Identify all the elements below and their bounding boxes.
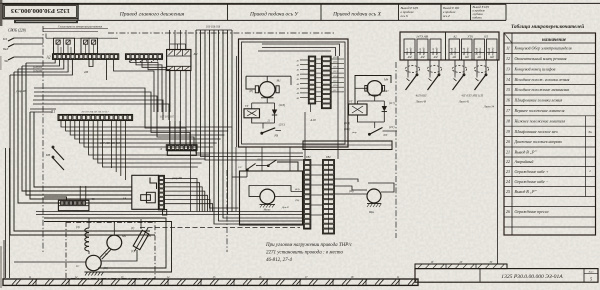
belt shaft: [100, 248, 111, 260]
svg-text:(Щ): (Щ): [349, 190, 354, 193]
contact module box 2: [81, 38, 98, 53]
svg-text:15: 15: [506, 87, 510, 92]
wires from strip A2: [10, 59, 107, 80]
svg-text:(С): (С): [131, 250, 135, 253]
disconnect switches under AB box: [405, 60, 488, 90]
svg-text:5: 5: [590, 276, 592, 281]
svg-text:ТВ2: ТВ2: [326, 156, 331, 159]
motor M1: [249, 79, 281, 98]
table header: назначение: [542, 38, 567, 43]
pump panel box: [240, 171, 303, 225]
svg-text:Окончательный конец резания: Окончательный конец резания: [515, 56, 567, 61]
svg-text:подача: подача: [492, 47, 495, 55]
wires from strip A1: [114, 59, 171, 112]
pump wires right: [275, 188, 302, 209]
svg-text:привод: привод: [423, 47, 426, 55]
svg-text:Таблица микропереключателей: Таблица микропереключателей: [511, 23, 584, 30]
thyristor box VT2: [349, 100, 368, 116]
svg-text:АМ: АМ: [433, 56, 439, 59]
svg-text:Вкл.об: Вкл.об: [463, 47, 466, 55]
svg-text:2!Р: 2!Р: [257, 158, 261, 161]
svg-text:11: 11: [506, 46, 510, 51]
terminal strip L3: [159, 145, 197, 156]
svg-text:ТВ1: ТВ1: [306, 156, 311, 159]
header strip cells: [78, 4, 506, 20]
top corner wires in panel Y: [258, 44, 340, 56]
svg-text:Эн: Эн: [588, 130, 592, 134]
svg-text:Вкл.гл: Вкл.гл: [432, 47, 435, 55]
svg-text:Привод подачи ось У: Привод подачи ось У: [249, 10, 299, 17]
terminal strip TB2: [323, 156, 335, 234]
svg-text:А2: А2: [452, 35, 457, 39]
svg-text:Нижнее положение ловителя: Нижнее положение ловителя: [514, 118, 566, 123]
left frame wires to bar: [3, 240, 5, 279]
svg-text:Согласовано по интересам расчл: Согласовано по интересам расчленения: [58, 26, 103, 29]
scan edge smudge bottom left: [0, 56, 2, 288]
svg-text:13: 13: [506, 66, 510, 71]
diode VD2: [382, 102, 395, 122]
wires panel Y to pump panel: [236, 56, 290, 211]
svg-text:10! 10? 10Б 10! 110 11! 11?: 10! 10? 10Б 10! 110 11! 11?: [81, 111, 109, 114]
svg-text:Привод подачи ось Х: Привод подачи ось Х: [332, 10, 381, 17]
svg-text:Аварийный: Аварийный: [514, 159, 534, 164]
solenoid coil: [76, 218, 89, 254]
panel Y top loop wire: [246, 76, 291, 89]
contactor K2: [167, 44, 198, 71]
svg-text:ось Х: ось Х: [401, 14, 409, 18]
svg-text:Лист 34: Лист 34: [483, 105, 495, 109]
note text line2: [266, 251, 343, 256]
step hatched bar: [415, 261, 507, 269]
wires to machine units: [101, 219, 141, 261]
note text line1: [265, 243, 353, 248]
svg-text:Исходное положение механизма: Исходное положение механизма: [514, 87, 570, 92]
svg-text:Исходное полож. головки лезвия: Исходное полож. головки лезвия: [514, 77, 570, 82]
svg-text:Вкл.об: Вкл.об: [451, 47, 454, 55]
svg-text:(211): (211): [333, 61, 338, 64]
tacho motor: [367, 189, 382, 214]
machine boundary dash-dot box: [66, 223, 155, 279]
boundary dash-dot pump: [226, 170, 228, 252]
svg-text:Шлифование головки лезвия: Шлифование головки лезвия: [514, 98, 563, 103]
svg-text:СВОБ (228): СВОБ (228): [8, 29, 27, 33]
svg-text:(Л): (Л): [76, 226, 80, 229]
wires below rail: [305, 104, 311, 159]
svg-text:привод: привод: [436, 47, 439, 55]
scan edge smudge top left: [0, 0, 2, 26]
svg-text:Лист 41: Лист 41: [458, 100, 470, 104]
svg-text:(228) БУ: (228) БУ: [33, 66, 44, 69]
connector box ATV: [122, 175, 165, 209]
panel X bottom rail: [303, 141, 392, 150]
svg-text:АМ: АМ: [464, 56, 470, 59]
svg-text:упор: упор: [351, 131, 357, 134]
svg-text:АВ: АВ: [122, 197, 127, 201]
svg-text:(7Б): (7Б): [295, 199, 299, 202]
terminal strip A1: [126, 54, 163, 60]
svg-text:25: 25: [506, 189, 510, 194]
svg-text:41П 61П: 41П 61П: [416, 94, 428, 98]
svg-text:Вкл.гл: Вкл.гл: [419, 47, 422, 55]
svg-text:1325 Р30.0.00.000 ЭЗ-01А: 1325 Р30.0.00.000 ЭЗ-01А: [501, 274, 563, 280]
border frame top line: [0, 2, 600, 4]
wire fan from strip X1: [61, 121, 232, 181]
thermal switches above pump: [232, 158, 298, 177]
contact module box 1: [54, 38, 75, 53]
svg-text:12: 12: [506, 56, 510, 61]
svg-text:Привод главного движения: Привод главного движения: [119, 10, 185, 17]
limit switch axis X: [344, 122, 397, 137]
wire down from A10 to TB area: [338, 56, 350, 159]
machine-bed hatched bar: [3, 276, 418, 285]
wires into T6: [44, 186, 86, 200]
svg-text:подачи: подачи: [473, 16, 483, 20]
svg-text:41: 41: [297, 59, 299, 62]
terminal strip A10 right: [322, 56, 332, 109]
svg-text:1325 Р30.000.000.ЭЗ: 1325 Р30.000.000.ЭЗ: [11, 7, 71, 14]
svg-text:Щм: Щм: [368, 210, 374, 214]
header label: Привод подачи ось У: [249, 10, 299, 17]
svg-text:(2!С): (2!С): [279, 124, 285, 127]
central vertical wire bundle: [196, 26, 303, 225]
incoming supply wires with arrows: [2, 37, 22, 63]
table grid: [504, 33, 596, 235]
svg-text:Ограждение кабе −: Ограждение кабе −: [515, 179, 549, 184]
svg-text:Шлифование плоское мех: Шлифование плоское мех: [514, 129, 559, 134]
switch labels: [415, 94, 495, 109]
note text line3: [266, 258, 292, 263]
svg-text:упор 4В: упор 4В: [15, 89, 26, 93]
svg-text:упор ЛВ: упор ЛВ: [171, 177, 182, 180]
section boundary dash-dot vertical: [42, 26, 44, 252]
svg-text:FВ: FВ: [274, 134, 279, 138]
svg-text:Вкл.об: Вкл.об: [476, 47, 479, 55]
svg-text:Концевой Обер электрошпинделя: Концевой Обер электрошпинделя: [514, 46, 572, 51]
svg-text:(2Ж!): (2Ж!): [344, 128, 350, 131]
panel box axis Y (double border): [239, 39, 349, 147]
svg-text:20: 20: [506, 139, 510, 144]
rheostat 2H: [131, 226, 152, 253]
svg-text:Ограждение пресса: Ограждение пресса: [515, 209, 549, 214]
contact arcs under strip A1: [129, 59, 159, 62]
svg-text:(Г): (Г): [131, 227, 134, 230]
grinder motor upper: [107, 222, 127, 250]
svg-text:АМ: АМ: [407, 56, 413, 59]
svg-text:Ж?: Ж?: [384, 90, 389, 93]
svg-text:А2: А2: [46, 56, 51, 60]
svg-text:привод: привод: [410, 47, 413, 55]
svg-text:Дум 4?: Дум 4?: [281, 206, 290, 209]
wires under header: [43, 29, 108, 32]
svg-text:21: 21: [506, 149, 510, 154]
svg-text:Вкл.об: Вкл.об: [488, 47, 491, 55]
svg-text:24: 24: [506, 179, 510, 184]
drawing number text: [501, 274, 563, 280]
wire from AB box to step bar: [497, 60, 499, 264]
header label: Привод главного движения: [119, 10, 185, 17]
wires between A10 strips: [316, 59, 322, 101]
wire labels left of A10: [297, 59, 309, 100]
svg-text:М1: М1: [276, 79, 282, 83]
svg-text:26: 26: [506, 209, 510, 214]
panel Y connecting wires: [252, 98, 285, 129]
terminal numbers above X1: [81, 111, 109, 114]
pump motor: [260, 189, 276, 211]
svg-text:М4: М4: [383, 78, 389, 82]
svg-text:Верхнее положение ловителя: Верхнее положение ловителя: [515, 108, 565, 113]
limit switch blades left: [45, 146, 64, 170]
svg-text:АМ: АМ: [451, 56, 457, 59]
svg-text:VT: VT: [349, 100, 353, 104]
svg-text:Т6: Т6: [92, 197, 96, 201]
svg-text:2Г: 2Г: [460, 261, 463, 264]
terminal strip A10 left: [308, 56, 316, 122]
stamp signature bar: [14, 20, 103, 29]
title stamp box (rotated drawing number): [3, 4, 78, 19]
header label: Привод подачи ось Х: [332, 10, 381, 17]
wires tacho to TB2: [334, 179, 394, 194]
wires from ATV to right: [164, 177, 212, 212]
pump loop wire: [249, 186, 291, 197]
svg-text:ось Z: ось Z: [443, 14, 450, 18]
svg-text:Ограждение кабе +: Ограждение кабе +: [515, 169, 549, 174]
svg-text:(Р): (Р): [249, 90, 253, 93]
wires from X1 into L3: [160, 116, 180, 146]
svg-text:Лист 43: Лист 43: [415, 100, 427, 104]
svg-text:107 108 109 110: 107 108 109 110: [100, 141, 121, 145]
svg-text:(229) ВУ: (229) ВУ: [33, 70, 44, 73]
wires between TB strips: [311, 165, 324, 215]
limit switch FV: [261, 128, 281, 138]
svg-text:1Г: 1Г: [431, 261, 434, 264]
handwritten note СВОБ: [8, 29, 27, 33]
svg-text:10? 10? 10?: 10? 10? 10?: [160, 116, 175, 119]
wires motor M4 loop: [355, 76, 391, 105]
svg-text:Л!Г: Л!Г: [382, 134, 388, 137]
svg-text:2271 установить провода : в ме: 2271 установить провода : в место: [266, 251, 343, 256]
table row labels: [506, 46, 572, 215]
wire bundle from contactor K2: [170, 30, 191, 212]
svg-text:Движение полозьев направо: Движение полозьев направо: [514, 139, 563, 144]
wire labels under X1: [100, 141, 121, 145]
microswitch table title: [511, 23, 584, 30]
svg-text:3Ф: 3Ф: [4, 59, 9, 63]
motor M4: [365, 78, 390, 97]
boundary dash-dot right: [395, 62, 397, 238]
header cell: Вывод Е ЦП ось Х: [401, 6, 419, 18]
stub below ATV: [163, 210, 167, 216]
svg-text:18: 18: [506, 118, 510, 123]
mid horizontal bus: [36, 212, 300, 228]
svg-text:(10) (10) (10): (10) (10) (10): [206, 26, 220, 29]
svg-text:19: 19: [506, 129, 510, 134]
svg-text:23: 23: [506, 169, 510, 174]
machine loop wires: [14, 218, 172, 272]
svg-text:назначение: назначение: [542, 38, 567, 43]
motor M3 lower: [76, 255, 108, 275]
left horizontal bus: [15, 38, 194, 145]
svg-text:41Г 6?П 10П 11П: 41Г 6?П 10П 11П: [461, 94, 483, 98]
svg-text:1!Р: 1!Р: [238, 166, 242, 169]
svg-text:14: 14: [506, 77, 510, 82]
svg-text:1С: 1С: [76, 265, 79, 268]
table nested column: [586, 116, 593, 197]
wires into X1 left: [30, 109, 56, 112]
svg-text:КН: КН: [45, 153, 51, 157]
svg-text:(21Д): (21Д): [344, 122, 350, 125]
terminal strip X1: [50, 110, 133, 121]
title block: [415, 269, 598, 283]
svg-text:VT: VT: [245, 104, 249, 108]
svg-text:3Г: 3Г: [490, 261, 493, 264]
svg-text:подача: подача: [454, 47, 457, 55]
wire labels right of A10: [331, 56, 344, 92]
svg-text:(4Л): (4Л): [295, 188, 300, 191]
svg-text:(Ж): (Ж): [103, 267, 107, 270]
svg-text:(2!Г): (2!Г): [389, 126, 394, 129]
thyristor box VT1: [244, 104, 260, 118]
terminal strip T6: [58, 197, 95, 211]
terminal strip A2: [46, 54, 119, 60]
svg-text:АМ: АМ: [489, 56, 495, 59]
svg-text:М9: М9: [121, 234, 126, 238]
wire above modules: [46, 34, 118, 39]
nested loop wires left: [6, 63, 156, 278]
svg-text:46-812, 27-4: 46-812, 27-4: [266, 258, 292, 263]
svg-text:(21?): (21?): [389, 102, 395, 105]
section boundary dash-dot horizontal: [108, 32, 335, 34]
svg-text:Вкл.гл: Вкл.гл: [406, 47, 409, 55]
svg-text:Насос: Насос: [263, 209, 272, 212]
svg-text:АМ: АМ: [476, 56, 482, 59]
svg-text:подача: подача: [479, 47, 482, 55]
svg-text:УТА: УТА: [467, 35, 472, 39]
svg-text:16: 16: [506, 98, 510, 103]
header cell: Вывод Е ЦП ось Z: [443, 6, 460, 18]
diode VD1: [272, 103, 285, 123]
svg-text:А10: А10: [309, 118, 316, 122]
svg-text:К2: К2: [193, 52, 198, 56]
svg-text:2М: 2М: [84, 70, 89, 74]
svg-text:подача: подача: [467, 47, 470, 55]
svg-text:АМ: АМ: [420, 56, 426, 59]
terminal strip TB1: [304, 156, 312, 229]
wires VT diode join: [358, 115, 385, 128]
svg-text:При угловом нагружении привода: При угловом нагружении привода ТНР/с: [265, 243, 353, 248]
switch box 1473 AB: [400, 32, 499, 60]
svg-text:(21N): (21N): [279, 104, 285, 107]
svg-text:Концевой конец шлифов: Концевой конец шлифов: [514, 66, 556, 71]
svg-text:22: 22: [506, 159, 510, 164]
header cell: Вывод Е ЦП глубина подачи: [473, 5, 490, 20]
svg-text:1473 АВ: 1473 АВ: [416, 35, 428, 39]
